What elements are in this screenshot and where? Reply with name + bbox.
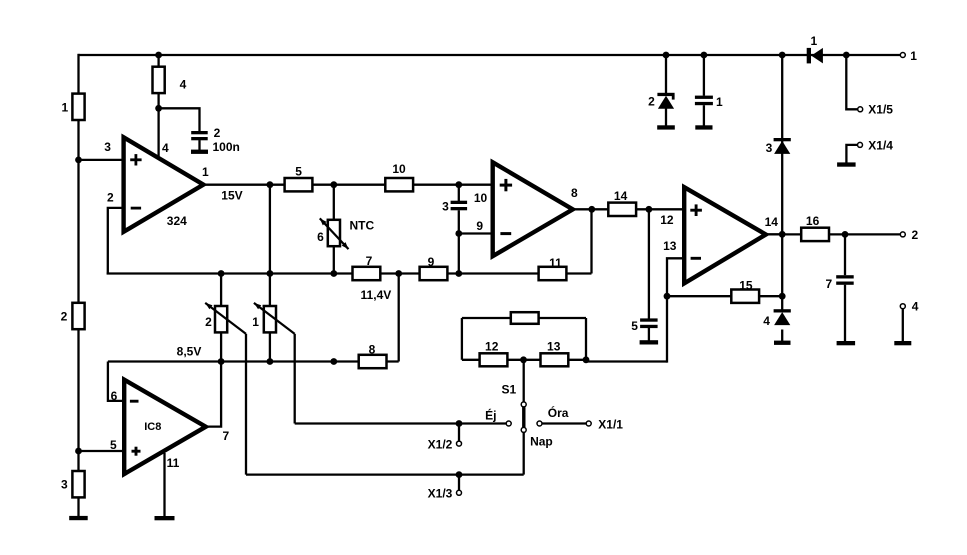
svg-text:324: 324 [167, 214, 187, 228]
svg-text:2: 2 [205, 315, 212, 329]
resistor R16 [801, 228, 829, 241]
resistor R7 [353, 267, 381, 280]
op-amp IC8 [124, 380, 206, 474]
wire pot P2 top lead [220, 274, 222, 307]
svg-text:16: 16 [806, 214, 820, 228]
junction R15 left node [664, 293, 671, 300]
wire D4 bottom lead [781, 330, 783, 342]
wire terminal 4 lead [902, 309, 904, 342]
svg-text:9: 9 [476, 219, 483, 233]
svg-text:12: 12 [660, 213, 674, 227]
terminal X1/3 [457, 490, 462, 495]
wire IC8 output [204, 362, 221, 427]
wire 8.5V line to IC8 pin6 [108, 362, 123, 401]
junction pot1 bottom [267, 358, 274, 365]
terminal 1 [900, 53, 905, 58]
op-amp U2 plus [500, 184, 512, 187]
wire X1/2 stub [458, 424, 460, 442]
junction R4 bottom node [155, 105, 162, 112]
wire divider box right edge [585, 318, 587, 360]
wire C1 branch [703, 55, 705, 96]
wire pot P2 bottom lead [220, 332, 222, 362]
wire X1/4 to ground [846, 145, 857, 163]
wire U3 pin13 input [667, 258, 684, 362]
svg-text:NTC: NTC [350, 218, 375, 232]
junction left rail pin5 [75, 448, 82, 455]
junction U1 output node [267, 181, 274, 188]
resistor R11 [539, 267, 567, 280]
resistor R parallel [511, 312, 539, 324]
resistor R2 [72, 303, 84, 329]
wire feedback line [107, 272, 592, 274]
ground under C2 [191, 150, 208, 154]
svg-text:1: 1 [811, 34, 818, 48]
wire left rail lower [77, 329, 79, 471]
resistor R1 [72, 94, 84, 120]
potentiometer P1 wiper arrow [254, 303, 295, 334]
resistor R14 [608, 203, 636, 216]
junction U2 output node [588, 206, 595, 213]
junction C3 bottom node [455, 270, 462, 277]
junction R8 left node [330, 358, 337, 365]
wire P1 wiper down [294, 334, 296, 424]
ground under D2 [657, 125, 675, 129]
junction R15 right node [779, 293, 786, 300]
svg-text:X1/5: X1/5 [868, 103, 893, 117]
svg-text:Nap: Nap [530, 434, 553, 448]
diode D1 [807, 48, 811, 64]
svg-text:1: 1 [910, 49, 917, 63]
terminal X1/5 [858, 107, 863, 112]
wire U1 output down [269, 185, 271, 274]
svg-text:4: 4 [162, 141, 169, 155]
ground under X1/4 [837, 162, 856, 166]
wire Nap line [246, 473, 524, 475]
svg-text:7: 7 [222, 429, 229, 443]
ground under C7 [837, 341, 856, 345]
svg-text:2: 2 [648, 94, 655, 108]
wire IC8 pin5 input [79, 450, 123, 452]
junction X1/3 node [456, 471, 463, 478]
wire U1 pin3 input [79, 159, 123, 161]
wire U2 output to U3 [571, 208, 684, 210]
wire pot P1 top lead [269, 274, 271, 307]
resistor R13 [541, 353, 569, 366]
svg-text:5: 5 [295, 165, 302, 179]
junction top rail D2 [663, 52, 670, 59]
resistor R12 [480, 353, 508, 366]
svg-text:14: 14 [614, 189, 628, 203]
wire left rail bottom [77, 497, 79, 516]
terminal 2 [900, 232, 905, 237]
wire pot P1 bottom lead [269, 332, 271, 362]
svg-text:4: 4 [912, 300, 919, 314]
wire divider box bottom edge [462, 359, 586, 361]
wire U2 pin9 input [459, 232, 492, 234]
ground under C5 [640, 340, 659, 344]
wire NTC bottom lead [333, 246, 335, 274]
junction left rail pin3 [75, 157, 82, 164]
svg-text:11,4V: 11,4V [361, 288, 392, 302]
svg-text:IC8: IC8 [144, 421, 161, 433]
svg-text:3: 3 [61, 478, 68, 492]
terminal X1/2 [457, 441, 462, 446]
potentiometer P2 [215, 306, 227, 332]
svg-text:5: 5 [631, 319, 638, 333]
capacitor C7 plates [836, 275, 854, 278]
svg-text:15: 15 [739, 279, 753, 293]
wire C2 lower lead [198, 140, 200, 150]
wire U3 output down [781, 234, 783, 311]
svg-text:7: 7 [825, 277, 832, 291]
wire U1 pin2 input [108, 208, 122, 275]
wire C5 bottom lead [648, 328, 650, 341]
op-amp U1 [124, 137, 204, 232]
capacitor C3 plates [451, 201, 468, 204]
junction divider right node [583, 356, 590, 363]
svg-text:12: 12 [485, 340, 499, 354]
svg-text:X1/1: X1/1 [598, 417, 623, 431]
svg-text:1: 1 [202, 165, 209, 179]
svg-text:1: 1 [252, 315, 259, 329]
wire C1 bottom lead [703, 105, 705, 125]
junction top rail D3 [779, 52, 786, 59]
wire R15 line [667, 295, 782, 297]
svg-text:3: 3 [104, 140, 111, 154]
svg-text:6: 6 [111, 389, 118, 403]
terminal X1/4 [858, 142, 863, 147]
op-amp U1 plus [130, 158, 141, 161]
ground under C1 [695, 125, 712, 129]
thermistor R6 NTC [328, 220, 340, 246]
ground under terminal 4 [894, 341, 911, 345]
junction pot1 top [267, 270, 274, 277]
switch contact Ej [506, 421, 511, 426]
wire C3 top lead [458, 185, 460, 201]
resistor R15 [731, 290, 759, 303]
svg-text:8: 8 [571, 186, 578, 200]
switch contact Ora [537, 421, 542, 426]
svg-text:X1/4: X1/4 [868, 138, 893, 152]
svg-text:3: 3 [766, 141, 773, 155]
wire C7 bottom lead [844, 285, 846, 342]
svg-text:14: 14 [765, 215, 779, 229]
junction node after R5 [330, 181, 337, 188]
op-amp U3 minus [691, 257, 701, 260]
wire U1 output to U2 [202, 184, 492, 186]
wire X1/3 stub [458, 475, 460, 491]
capacitor C2 plates [191, 131, 208, 134]
junction top rail R4 [155, 52, 162, 59]
junction R8 branch [395, 270, 402, 277]
wire NTC top lead [333, 185, 335, 221]
junction top rail C1 [701, 52, 708, 59]
wire U3 output [762, 233, 782, 235]
wire left rail mid [77, 120, 79, 303]
wire Ora to X1/1 [542, 422, 586, 424]
switch S1 top contact [521, 402, 526, 407]
svg-text:Éj: Éj [485, 407, 496, 422]
wire S1 stem [523, 360, 525, 402]
svg-text:7: 7 [366, 254, 373, 268]
diode D3 [774, 138, 791, 141]
junction U2 pin9 node [455, 230, 462, 237]
svg-text:15V: 15V [221, 189, 242, 203]
svg-text:10: 10 [392, 162, 406, 176]
wire R8 branch down [398, 274, 400, 362]
svg-text:Óra: Óra [548, 405, 569, 420]
svg-text:2: 2 [214, 126, 221, 140]
thermistor R6 arrow [320, 218, 349, 249]
wire R4 branch [157, 55, 159, 156]
wire C7 top lead [844, 234, 846, 275]
ground under R3 [69, 516, 88, 520]
potentiometer P1 [264, 306, 276, 332]
svg-text:3: 3 [442, 200, 449, 214]
svg-text:8,5V: 8,5V [177, 344, 202, 358]
op-amp U1 minus [131, 207, 141, 210]
op-amp U2 minus [500, 232, 511, 235]
junction C5 top node [646, 206, 653, 213]
svg-text:100n: 100n [213, 140, 240, 154]
op-amp U3 plus [690, 209, 702, 212]
resistor R9 [420, 267, 448, 280]
svg-text:11: 11 [549, 256, 562, 270]
svg-text:1: 1 [716, 95, 723, 109]
switch S1 bottom contact [521, 427, 526, 432]
svg-text:13: 13 [663, 239, 677, 253]
capacitor C1 plates [695, 96, 713, 99]
capacitor C5 plates [640, 318, 658, 321]
switch S1 wiper bar [522, 407, 525, 427]
wire S1 bottom to Nap line [523, 432, 525, 474]
wire 8.5V line [108, 360, 399, 362]
op-amp IC8 plus [132, 450, 141, 453]
wire divider box top edge [462, 317, 586, 319]
diode D4 [774, 309, 791, 312]
wire divider box left edge [461, 318, 463, 360]
wire left rail upper [77, 54, 79, 94]
wire D3 branch [781, 55, 783, 234]
wire D2 bottom lead [665, 108, 667, 126]
svg-text:S1: S1 [501, 382, 516, 396]
svg-text:5: 5 [110, 438, 117, 452]
junction NTC bottom [330, 270, 337, 277]
svg-text:X1/3: X1/3 [428, 487, 453, 501]
svg-text:9: 9 [428, 255, 435, 269]
junction X1/2 node [456, 420, 463, 427]
junction C3 top node [455, 181, 462, 188]
resistor R3 [72, 471, 84, 497]
wire IC8 pin11 lead [163, 453, 165, 517]
svg-text:4: 4 [763, 314, 770, 328]
resistor R4 [153, 67, 165, 93]
wire Ej line [295, 422, 507, 424]
resistor R8 [359, 355, 387, 368]
svg-text:1: 1 [61, 100, 68, 114]
svg-text:2: 2 [107, 191, 114, 205]
wire C5 top lead [648, 209, 650, 318]
op-amp U2 [493, 162, 573, 256]
potentiometer P2 wiper arrow [205, 303, 246, 334]
junction top rail X1/5 [843, 52, 850, 59]
svg-text:X1/2: X1/2 [428, 438, 453, 452]
wire D2 branch [665, 55, 667, 93]
junction pot2 top [218, 270, 225, 277]
svg-text:2: 2 [61, 309, 68, 323]
junction S1 top node [520, 356, 527, 363]
terminal 4 [900, 304, 905, 309]
wire to X1/5 [846, 55, 858, 109]
svg-text:13: 13 [547, 340, 561, 354]
op-amp IC8 minus [130, 400, 139, 403]
svg-text:11: 11 [167, 456, 180, 470]
wire P2 wiper down [245, 334, 247, 475]
ground under D4 [774, 341, 791, 345]
wire pin13 node to divider [586, 360, 667, 362]
op-amp U3 [684, 187, 766, 283]
wire C3 bottom lead [458, 210, 460, 273]
svg-text:2: 2 [912, 228, 919, 242]
wire R16 line [782, 233, 900, 235]
wire top rail [79, 54, 901, 56]
terminal X1/1 [586, 421, 591, 426]
wire feedback up to U2 output [590, 209, 592, 273]
svg-text:10: 10 [474, 191, 488, 205]
junction U3 output node [779, 231, 786, 238]
junction IC8 output node [218, 358, 225, 365]
resistor R10 [385, 178, 413, 191]
resistor R5 [285, 178, 313, 191]
svg-text:8: 8 [369, 342, 376, 356]
junction C7 top node [842, 231, 849, 238]
svg-text:6: 6 [317, 230, 324, 244]
zener diode D2 [657, 93, 674, 96]
svg-text:4: 4 [180, 77, 187, 91]
wire to capacitor C2 [159, 108, 200, 131]
ground under IC8 [155, 516, 175, 520]
